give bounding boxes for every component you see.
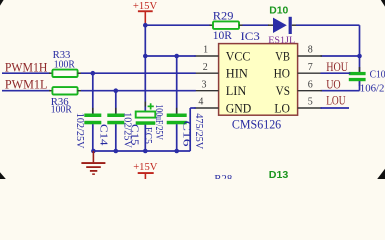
pin 3 — [194, 79, 218, 90]
wire R33 to HIN pin 2 — [78, 72, 82, 74]
pin 5 — [298, 97, 322, 108]
svg-text:R28: R28 — [214, 173, 232, 179]
svg-text:LOU: LOU — [326, 94, 345, 108]
svg-text:VCC: VCC — [226, 49, 251, 63]
junction VCC rail at EC5 — [143, 54, 148, 59]
svg-text:5: 5 — [308, 97, 313, 108]
wire LO pin 5 (LOU) — [321, 107, 350, 109]
svg-text:HOU: HOU — [326, 60, 348, 74]
wire +15V down to VCC rail — [144, 25, 146, 56]
wire C15 to ground rail — [115, 124, 117, 151]
junction rail C14 — [91, 149, 96, 154]
op-amp/driver IC3 CMS6126 body — [219, 44, 298, 116]
pin 6 — [298, 79, 322, 90]
svg-text:HO: HO — [274, 67, 290, 81]
svg-text:100uF/25V: 100uF/25V — [153, 104, 164, 140]
svg-text:CMS6126: CMS6126 — [232, 117, 281, 131]
svg-text:1: 1 — [203, 45, 208, 56]
svg-text:3: 3 — [202, 79, 207, 90]
svg-text:C10: C10 — [370, 68, 385, 80]
svg-text:VS: VS — [276, 84, 290, 98]
svg-text:LIN: LIN — [226, 84, 247, 98]
svg-text:4: 4 — [198, 97, 203, 108]
pin 1 — [194, 45, 218, 56]
junction rail EC5 — [143, 149, 148, 154]
svg-text:7: 7 — [308, 62, 313, 73]
diode D10 — [273, 17, 292, 34]
wire C16 to ground rail — [176, 124, 178, 151]
wire R29 to D10 — [239, 24, 243, 26]
power +15V (bottom) — [133, 162, 158, 179]
svg-text:D10: D10 — [269, 6, 288, 17]
wire C15 column — [115, 91, 117, 114]
junction rail C15 — [114, 149, 119, 154]
svg-text:C14: C14 — [97, 124, 108, 146]
junction rail C16 — [174, 149, 179, 154]
pin 2 — [194, 62, 218, 73]
svg-text:IC3: IC3 — [241, 29, 260, 43]
svg-text:EC5: EC5 — [142, 127, 153, 144]
svg-text:6: 6 — [308, 79, 313, 90]
svg-text:475/25V: 475/25V — [193, 113, 204, 150]
wire HO pin 7 (HOU) — [321, 72, 351, 74]
svg-text:PWM1L: PWM1L — [5, 78, 48, 92]
svg-text:GND: GND — [226, 101, 251, 115]
svg-text:+15V: +15V — [133, 1, 158, 12]
junction VB node — [357, 54, 362, 59]
wire R36 to LIN pin 3 — [78, 90, 82, 92]
wire C14 to ground rail — [92, 124, 94, 151]
svg-text:8: 8 — [308, 45, 313, 56]
ground symbol — [81, 151, 105, 175]
svg-text:R29: R29 — [213, 11, 234, 23]
svg-text:UO: UO — [326, 77, 341, 91]
power +15V (top) — [133, 1, 158, 25]
pin 4 — [194, 97, 218, 108]
wire PWM1L to R36 — [2, 90, 50, 92]
junction HIN node / C14 top — [91, 71, 96, 76]
junction LIN node / C15 top — [114, 88, 119, 93]
capacitor C16 — [167, 108, 187, 130]
svg-text:10R: 10R — [213, 30, 233, 42]
resistor R29 — [213, 21, 239, 29]
resistor R36 — [52, 87, 77, 94]
capacitor EC5 (electrolytic) — [136, 102, 156, 130]
svg-text:C15: C15 — [128, 124, 139, 146]
svg-text:D13: D13 — [269, 170, 289, 179]
capacitor C14 — [84, 108, 101, 130]
capacitor C15 — [107, 108, 124, 130]
wire VB pin 8 — [321, 55, 360, 57]
svg-text:100R: 100R — [54, 58, 76, 70]
wire C16 column — [176, 56, 178, 114]
wire EC5 column — [144, 56, 146, 112]
wire EC5 to ground rail — [144, 125, 146, 151]
pin 7 — [298, 62, 322, 73]
svg-text:LO: LO — [274, 101, 290, 115]
capacitor C10 — [349, 56, 366, 91]
svg-text:+15V: +15V — [133, 162, 158, 173]
wire VCC rail to pin 1 — [145, 55, 196, 57]
svg-text:HIN: HIN — [226, 67, 248, 81]
resistor R33 — [52, 70, 77, 77]
wire +15V rail to R29 — [145, 24, 210, 26]
wire VS pin 6 to C10 (UO node) — [321, 90, 360, 92]
svg-text:2: 2 — [203, 62, 208, 73]
svg-text:100R: 100R — [51, 104, 73, 116]
pin 8 — [298, 45, 322, 56]
ground rail — [93, 150, 190, 152]
wire GND pin 4 down — [190, 107, 196, 109]
svg-text:VB: VB — [275, 49, 290, 63]
wire C14 column — [92, 73, 94, 113]
svg-text:106/25V: 106/25V — [360, 83, 385, 95]
junction +15V rail — [143, 23, 148, 28]
wire PWM1H to R33 — [2, 72, 50, 74]
junction VCC rail at C16 — [174, 54, 179, 59]
wire D10 cathode to VB node — [292, 24, 297, 26]
svg-text:102/25V: 102/25V — [74, 113, 85, 149]
